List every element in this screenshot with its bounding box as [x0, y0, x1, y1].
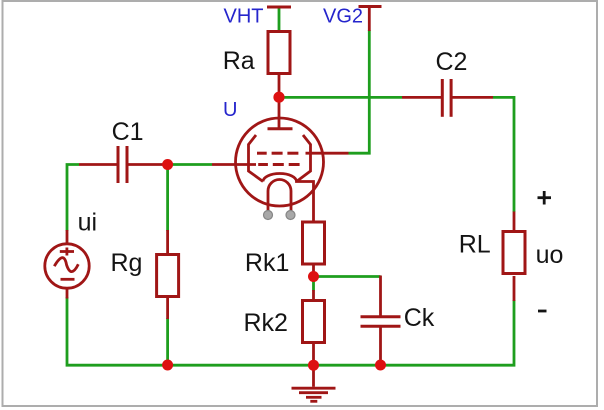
heater pin 2 [286, 211, 295, 220]
label plus [538, 191, 552, 205]
wire: Rg bottom to rail [166, 318, 169, 365]
resistor Rk2 [303, 290, 325, 361]
tube screen grid g2 [257, 152, 349, 155]
resistor Ra [268, 32, 290, 128]
capacitor Ck [361, 276, 401, 362]
svg-text:VG2: VG2 [323, 6, 363, 28]
wire: plate node to C2 [279, 96, 402, 99]
VG2 pin [368, 7, 371, 32]
capacitor C2 [402, 79, 493, 117]
svg-text:C1: C1 [112, 118, 144, 146]
ground [292, 365, 336, 401]
wire: grid node to tube g1 [168, 163, 212, 166]
node Ck bottom junction [375, 360, 386, 371]
wire: VHT to Ra [278, 7, 281, 32]
wire: C2 right down to RL [493, 97, 514, 212]
svg-text:VHT: VHT [224, 6, 264, 28]
wire: cathode node to Ck [314, 275, 381, 278]
svg-text:C2: C2 [436, 48, 468, 76]
svg-text:Ra: Ra [223, 47, 255, 75]
node cathode junction [308, 271, 319, 282]
svg-text:RL: RL [459, 231, 491, 259]
wire: grid node down to Rg [166, 165, 169, 232]
svg-text:Rk1: Rk1 [245, 249, 289, 277]
node grid junction [162, 159, 173, 170]
wire: C1 left corner to source top [67, 165, 79, 232]
svg-text:U: U [223, 99, 237, 121]
wire: source bottom, ground rail, RL bottom [67, 297, 514, 365]
node ground junction [308, 360, 319, 371]
capacitor C1 [79, 146, 163, 183]
resistor Rk1 [303, 222, 325, 272]
source ui [45, 230, 89, 299]
power bar VG2 [359, 5, 382, 8]
heater pin 1 [264, 211, 273, 220]
tube U envelope [236, 118, 324, 206]
tube beam plate left [249, 135, 264, 182]
label minus [538, 310, 547, 313]
svg-text:Ck: Ck [404, 304, 435, 332]
svg-text:Rk2: Rk2 [244, 309, 288, 337]
node plate junction [273, 92, 284, 103]
svg-text:ui: ui [78, 209, 97, 237]
svg-text:uo: uo [536, 241, 564, 269]
tube plate [268, 127, 293, 130]
resistor Rg [157, 230, 179, 319]
power bar VHT [267, 6, 291, 9]
svg-text:Rg: Rg [111, 249, 143, 277]
wire: VG2 down and to screen grid [349, 30, 370, 153]
tube beam plate right [297, 135, 311, 182]
resistor RL [503, 212, 525, 302]
tube heater [268, 180, 291, 213]
wire: cathode node down to Rk2 [312, 277, 315, 291]
tube cathode [263, 174, 314, 221]
node Rg bottom junction [162, 360, 173, 371]
tube control grid g1 [212, 163, 300, 166]
